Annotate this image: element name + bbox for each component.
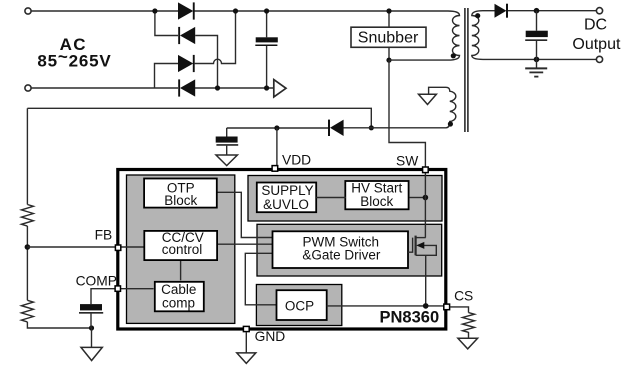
node D3-pos junction bbox=[233, 8, 238, 13]
node snubber-primary junction bbox=[386, 58, 391, 63]
diode D2 bridge second bbox=[178, 27, 195, 44]
wire CCCV to cable comp bbox=[180, 259, 182, 280]
transformer primary winding bbox=[448, 11, 460, 60]
resistor R2 bbox=[21, 300, 33, 322]
IC PN8360 outline bbox=[118, 170, 446, 330]
svg-text:CS: CS bbox=[454, 289, 473, 304]
wire R1 to FB node bbox=[26, 226, 28, 300]
wire aux sense line long horizontal bbox=[27, 108, 371, 128]
wire snubber to primary bottom bbox=[388, 47, 390, 60]
node FB divider junction bbox=[25, 244, 31, 250]
capacitor C1 plates bbox=[255, 37, 277, 46]
node output cap bottom junction bbox=[534, 57, 540, 63]
node D2-neg junction bbox=[215, 85, 220, 90]
pin GND square bbox=[243, 326, 249, 331]
DC output terminal bottom bbox=[596, 56, 602, 62]
label DC Output bbox=[572, 16, 621, 53]
node output cap top junction bbox=[534, 8, 540, 14]
mosfet Q1 drain lead bbox=[416, 237, 426, 239]
gray block supply section bbox=[248, 176, 442, 222]
capacitor C2 plates bbox=[216, 137, 239, 146]
wire to ground triangle bbox=[91, 328, 93, 347]
svg-text:comp: comp bbox=[162, 295, 195, 310]
snubber box bbox=[351, 27, 426, 47]
wire D3 cathode with hop to positive bus bbox=[194, 11, 236, 64]
wire supply to HV bbox=[316, 197, 346, 199]
resistor divider top wire bbox=[26, 108, 28, 204]
node C1 top junction bbox=[264, 8, 269, 13]
node VDD branch junction bbox=[274, 125, 279, 130]
capacitor C1 lead bottom bbox=[266, 46, 268, 88]
wire snubber drop from top rail bbox=[388, 11, 390, 27]
svg-text:control: control bbox=[162, 242, 203, 257]
node C1 bottom junction bbox=[264, 85, 269, 90]
capacitor C4 lead bottom bbox=[536, 41, 538, 60]
wire AC line2 bottom bbox=[31, 87, 178, 89]
wire SW pin down to mosfet drain bbox=[424, 172, 426, 237]
svg-text:VDD: VDD bbox=[282, 153, 311, 168]
node AC1-D1 junction bbox=[152, 8, 157, 13]
ground triangle CS bbox=[458, 338, 478, 349]
ground earth secondary bbox=[536, 59, 538, 68]
pin FB square bbox=[115, 245, 120, 250]
wire AC1 to D2 vertical bbox=[155, 11, 178, 36]
wire output positive bbox=[508, 10, 596, 12]
AC input terminal bottom bbox=[25, 85, 31, 91]
wire top rail positive bus bbox=[194, 10, 448, 12]
mosfet Q1 channel bar bbox=[415, 236, 417, 256]
AC input terminal top bbox=[25, 8, 31, 14]
capacitor C2 lead bottom bbox=[226, 146, 228, 155]
block OCP bbox=[277, 290, 327, 320]
svg-text:Output: Output bbox=[572, 36, 621, 53]
ground triangle VDD bbox=[216, 155, 237, 166]
wire FB inside bbox=[120, 246, 144, 248]
capacitor C4 plates bbox=[525, 31, 548, 41]
svg-text:SUPPLY: SUPPLY bbox=[261, 183, 313, 198]
capacitor C3 lead bottom bbox=[90, 314, 92, 328]
pin SW square bbox=[423, 167, 429, 173]
wire VDD rail bbox=[227, 127, 328, 129]
mosfet Q1 source leads bbox=[416, 245, 437, 255]
pin COMP square bbox=[115, 286, 120, 291]
svg-text:&Gate Driver: &Gate Driver bbox=[302, 247, 381, 262]
block OTP bbox=[144, 179, 217, 208]
label AC 85~265V bbox=[37, 35, 111, 71]
wire D2 anode to negative bus bbox=[195, 36, 217, 89]
node secondary polarity dot bbox=[475, 13, 480, 18]
gray block OCP section bbox=[256, 285, 341, 326]
capacitor C2 VDD lead bbox=[226, 128, 228, 137]
wire AC line1 top rail bbox=[31, 10, 178, 12]
capacitor C1 bulk input lead top bbox=[266, 11, 268, 37]
wire PWM to OCP bbox=[245, 253, 276, 304]
block PWM Switch Gate Driver bbox=[273, 231, 409, 268]
wire primary bottom bbox=[389, 59, 448, 61]
wire COMP to cap bbox=[91, 289, 115, 304]
wire mosfet source down bbox=[425, 255, 427, 306]
aux winding start arrow bbox=[429, 87, 446, 94]
svg-text:Block: Block bbox=[360, 194, 393, 209]
wire OCP output to CS bbox=[327, 305, 444, 307]
capacitor C3 COMP plates bbox=[79, 304, 103, 314]
block HV Start bbox=[345, 181, 408, 209]
transformer aux winding bbox=[446, 87, 456, 128]
resistor R3 CS sense bbox=[463, 313, 475, 333]
gray block left control section bbox=[127, 175, 235, 323]
svg-text:GND: GND bbox=[255, 329, 286, 344]
diode D1 bridge top bbox=[178, 2, 195, 19]
diode D3 bridge third bbox=[178, 55, 195, 72]
wire AC2 to D3 vertical bbox=[155, 64, 179, 89]
wire CS pin to resistor bbox=[450, 307, 469, 313]
diode D5 VDD bbox=[328, 120, 344, 136]
svg-text:SW: SW bbox=[396, 154, 418, 169]
svg-text:Snubber: Snubber bbox=[358, 30, 419, 47]
diode D4 bridge bottom bbox=[178, 79, 195, 96]
svg-text:COMP: COMP bbox=[76, 274, 117, 289]
pin VDD square bbox=[272, 166, 278, 172]
diode D6 output rectifier bbox=[495, 4, 509, 18]
transformer secondary winding bbox=[472, 11, 483, 60]
wire R3 to ground bbox=[468, 332, 470, 338]
capacitor C4 output lead top bbox=[536, 11, 538, 31]
wire primary bottom node to SW bbox=[389, 60, 425, 167]
block SUPPLY UVLO bbox=[257, 183, 316, 213]
wire negative bus row4 bbox=[195, 87, 274, 89]
transformer core bbox=[465, 8, 468, 132]
arrow DC bus marker bbox=[274, 80, 286, 97]
svg-text:PN8360: PN8360 bbox=[380, 309, 440, 327]
wire secondary bottom return bbox=[483, 58, 596, 60]
gray block PWM section bbox=[257, 224, 442, 276]
wire HV to SW line bbox=[410, 197, 426, 199]
wire VDD down to pin bbox=[276, 128, 278, 166]
wire VDD diode to junction to aux bbox=[343, 127, 446, 129]
svg-text:FB: FB bbox=[95, 227, 113, 242]
node source-CS junction bbox=[423, 303, 429, 309]
node snubber top junction bbox=[386, 8, 391, 13]
resistor R1 bbox=[21, 205, 33, 227]
node aux polarity dot bbox=[448, 121, 453, 126]
svg-text:&UVLO: &UVLO bbox=[263, 197, 309, 212]
block CC/CV control bbox=[144, 231, 217, 260]
wire FB to IC bbox=[27, 246, 115, 248]
svg-text:Block: Block bbox=[164, 193, 197, 208]
ground triangle GND bbox=[237, 353, 256, 364]
block Cable comp bbox=[155, 282, 204, 312]
svg-text:DC: DC bbox=[584, 16, 607, 33]
wire R2 bottom to comp ground bbox=[27, 322, 91, 328]
DC output terminal top bbox=[596, 8, 602, 14]
node sense-VDD diode junction bbox=[369, 125, 374, 130]
mosfet Q1 body arrow bbox=[416, 242, 424, 249]
wire secondary top to diode bbox=[483, 10, 495, 12]
wire OTP to PWM bbox=[217, 192, 273, 237]
node HV-SW junction bbox=[423, 195, 429, 201]
node comp cap ground junction bbox=[89, 325, 94, 330]
mosfet Q1 gate lead bbox=[408, 238, 413, 253]
svg-text:OCP: OCP bbox=[285, 299, 314, 314]
node primary polarity dot bbox=[451, 53, 456, 58]
wire CCCV to PWM bbox=[218, 243, 273, 245]
wire COMP inside bbox=[118, 288, 154, 290]
wire GND pin to ground bbox=[245, 332, 247, 353]
pin CS square bbox=[444, 304, 450, 310]
svg-text:85~265V: 85~265V bbox=[37, 47, 111, 70]
ground triangle COMP bbox=[81, 347, 102, 360]
